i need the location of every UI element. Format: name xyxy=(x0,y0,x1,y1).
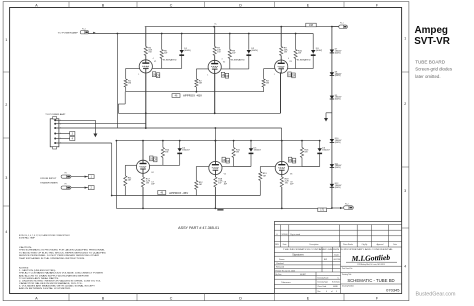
svg-text:6550A: 6550A xyxy=(279,167,285,170)
wire upper B+ bus xyxy=(145,26,339,28)
svg-text:Screen-grid diodes: Screen-grid diodes xyxy=(415,67,453,72)
wire upper bus stub to P2 xyxy=(332,26,339,28)
svg-text:Approval: Approval xyxy=(377,243,384,246)
wire pin3 drop to rail xyxy=(215,127,282,141)
svg-text:P2-1: P2-1 xyxy=(340,23,344,25)
wire grid V1 xyxy=(126,68,140,91)
svg-text:1W: 1W xyxy=(164,53,167,55)
label TO POWER AMP connector xyxy=(45,113,66,116)
net box dark on cathode bus xyxy=(217,209,223,211)
svg-text:D: D xyxy=(239,296,242,300)
wire screen res feed V6 xyxy=(288,141,302,167)
svg-text:ASSY PART # 47-365-01: ASSY PART # 47-365-01 xyxy=(178,226,219,230)
diode D6 1N4007 xyxy=(317,148,322,153)
watermark BustedGear.com xyxy=(416,291,456,297)
pin boxes V6 xyxy=(288,157,296,163)
resistor R8 screen xyxy=(228,50,231,59)
tolerance box xyxy=(281,281,291,284)
svg-text:4: 4 xyxy=(404,265,406,269)
svg-text:3. VOLTAGES ARE MEASURED WITH: 3. VOLTAGES ARE MEASURED WITH 120VAC SIG… xyxy=(19,284,96,287)
svg-text:BW: BW xyxy=(324,259,327,261)
net box 46 top xyxy=(172,94,180,98)
resistor R10 screen xyxy=(294,50,297,59)
svg-text:P1-4: P1-4 xyxy=(82,28,86,30)
svg-text:1W: 1W xyxy=(285,183,288,185)
label eliminator note V1 xyxy=(162,58,177,61)
svg-text:AND IN BETWEEN DIGITAL VOLT: AND IN BETWEEN DIGITAL VOLTMETER. xyxy=(19,287,72,290)
svg-text:168: 168 xyxy=(309,24,314,27)
wire screen feed V1 xyxy=(161,34,163,69)
wire diode feed D5 xyxy=(234,141,251,167)
svg-text:1. CAUTION (UNLESS NOTED):: 1. CAUTION (UNLESS NOTED): xyxy=(19,269,57,272)
svg-text:APPROX -45V: APPROX -45V xyxy=(169,192,189,195)
svg-text:Drawn: Drawn xyxy=(279,258,284,261)
resistor R11 grid 1M xyxy=(124,176,127,186)
margin title SVT-VR xyxy=(414,36,450,47)
svg-text:3: 3 xyxy=(404,189,406,193)
label R16 1M xyxy=(304,150,309,154)
wire input a arrow xyxy=(71,176,88,178)
zone row numbers xyxy=(5,37,406,269)
svg-text:44-365*: 44-365* xyxy=(300,274,306,276)
diode D2 screen 1N4007 xyxy=(246,50,251,55)
svg-text:Date: Date xyxy=(283,243,287,246)
ground arrow diode column xyxy=(324,118,328,122)
junction grid bus V2 xyxy=(196,91,198,93)
junction diode node V6 xyxy=(301,140,321,142)
junction cathode bus V5 xyxy=(215,173,226,209)
svg-text:TO POWER AMP: TO POWER AMP xyxy=(45,113,66,116)
label R5 10K 1W xyxy=(148,48,152,54)
svg-text:1: 1 xyxy=(138,74,139,76)
svg-text:9/13/06: 9/13/06 xyxy=(282,234,288,236)
svg-text:(600V): (600V) xyxy=(335,187,341,189)
wire grid bus jog down xyxy=(118,92,125,114)
svg-text:1: 1 xyxy=(404,37,406,41)
label R14 1M xyxy=(165,150,170,154)
doc control strip xyxy=(283,248,393,251)
scale rows xyxy=(318,276,341,292)
wire cathode V5 xyxy=(214,174,216,208)
svg-text:2. UNLESS NOTED: RESISTOR VAL: 2. UNLESS NOTED: RESISTOR VALUES IN OHMS… xyxy=(19,279,102,282)
net box input b xyxy=(88,186,94,190)
svg-text:SVT-VR: SVT-VR xyxy=(414,36,450,47)
svg-text:Chg By: Chg By xyxy=(362,244,368,246)
svg-text:CR: CR xyxy=(225,75,229,78)
svg-text:6550A: 6550A xyxy=(279,66,285,69)
wire cathode V6 xyxy=(281,174,283,208)
wire corner drop to D3 xyxy=(295,33,314,69)
wire diode feed D6 xyxy=(302,141,320,167)
svg-text:1M: 1M xyxy=(263,175,266,177)
label APPROX -45V top xyxy=(183,95,203,98)
junction rail riser xyxy=(116,140,118,142)
pin boxes V1 xyxy=(152,72,160,78)
svg-text:1W: 1W xyxy=(298,53,301,55)
margin title Ampeg xyxy=(415,25,448,36)
label R1 1M xyxy=(128,81,132,85)
drawing number text xyxy=(386,288,400,293)
wire input b arrow xyxy=(71,187,88,189)
svg-text:Description: Description xyxy=(310,243,319,246)
connector P3 right xyxy=(344,203,354,209)
svg-text:Class Code: Class Code xyxy=(318,286,327,288)
svg-text:1W: 1W xyxy=(284,52,287,54)
label D4 xyxy=(182,148,190,152)
svg-text:Date: Date xyxy=(334,253,339,256)
label R19 2.2K 1W xyxy=(285,179,295,186)
junction diode column cathode bus xyxy=(331,207,333,209)
tube V2 6550 xyxy=(208,60,221,73)
notes paragraph xyxy=(19,268,104,290)
wire pin4 to net box xyxy=(55,133,69,135)
signatures header xyxy=(292,253,339,256)
svg-text:1M: 1M xyxy=(128,83,131,85)
signatures grid xyxy=(274,241,340,293)
tiny label above upper bus xyxy=(215,23,217,25)
resistor R13 grid 1M xyxy=(259,172,262,181)
junction cathode bus V6 xyxy=(281,173,292,209)
label D10 xyxy=(335,138,342,144)
drawing title row xyxy=(341,273,402,276)
wire grid res to bus V5 xyxy=(195,189,197,195)
revision table columns xyxy=(280,225,388,247)
svg-text:V1: V1 xyxy=(154,61,156,63)
svg-text:SERVICE PERSONNEL. DO NOT PER: SERVICE PERSONNEL. DO NOT PERFORM ANY SE… xyxy=(19,254,100,257)
svg-text:1W: 1W xyxy=(148,52,151,54)
note top line xyxy=(19,234,71,240)
svg-text:CR: CR xyxy=(226,160,230,163)
diode D10 1N4007 600V xyxy=(330,139,334,142)
svg-text:Drawing Number: Drawing Number xyxy=(342,285,354,287)
wire pin6 down feed xyxy=(55,143,111,196)
margin note TUBE BOARD xyxy=(415,60,446,65)
pin boxes V2 xyxy=(221,72,229,78)
wire plate feed V4 xyxy=(142,141,144,161)
svg-text:2: 2 xyxy=(404,102,406,106)
pin number V3 xyxy=(274,58,292,76)
svg-text:SCHEMATIC - TUBE BD: SCHEMATIC - TUBE BD xyxy=(347,278,394,283)
junction upper bus / V3 plate xyxy=(280,26,282,28)
svg-text:M.I.Gottlieb: M.I.Gottlieb xyxy=(351,253,391,263)
label R9 10K 1W xyxy=(284,48,288,54)
wire diode feed D1 xyxy=(181,34,183,69)
tube V6 6550 xyxy=(275,161,288,174)
svg-text:D: D xyxy=(239,3,242,7)
sheet inner border xyxy=(10,8,402,294)
svg-text:44365: 44365 xyxy=(333,286,338,288)
label D5 xyxy=(254,148,262,152)
svg-text:Prime Realm: Prime Realm xyxy=(343,243,353,246)
svg-text:1W: 1W xyxy=(217,52,220,54)
wire cathode V1 xyxy=(145,73,147,129)
junction upper bus / diode column xyxy=(331,26,333,28)
svg-text:2: 2 xyxy=(60,123,61,125)
svg-text:1M: 1M xyxy=(128,180,131,182)
junction cathode bus V4 xyxy=(142,172,153,209)
diode D11 1N4007 600V xyxy=(330,164,334,167)
signatures rows xyxy=(276,258,340,269)
zone column ticks xyxy=(69,2,344,301)
margin note screen-grid xyxy=(415,67,453,72)
svg-text:My Part:: My Part: xyxy=(275,273,282,276)
tube V5 6550 xyxy=(209,161,222,174)
svg-text:Ampeg: Ampeg xyxy=(415,25,448,36)
wire screen feed V2 xyxy=(229,34,231,69)
wire plate feed V1 xyxy=(145,27,147,60)
resistor R19 cathode 2.2K xyxy=(280,177,283,187)
svg-text:CAUTION:: CAUTION: xyxy=(19,246,33,249)
svg-text:Schematic: Schematic xyxy=(332,281,340,284)
diode D8 1N4007 600V xyxy=(330,72,334,75)
svg-text:(600V): (600V) xyxy=(335,53,341,55)
svg-text:171: 171 xyxy=(320,209,325,212)
svg-text:1: 1 xyxy=(274,74,275,76)
label D11 xyxy=(335,163,342,169)
svg-text:(600V): (600V) xyxy=(335,142,341,144)
svg-text:4: 4 xyxy=(288,58,289,60)
svg-text:*ELIMINATED: *ELIMINATED xyxy=(230,58,245,61)
printed row xyxy=(275,269,306,276)
svg-text:06/17/06: 06/17/06 xyxy=(334,259,341,261)
junction rail V4 xyxy=(142,140,144,142)
svg-text:TRANSFORMER: TRANSFORMER xyxy=(40,181,58,184)
connector P2 at upper bus right xyxy=(339,23,348,29)
wire cathode bus bottom xyxy=(116,207,332,209)
tube V1 6550 xyxy=(139,60,152,73)
tube V3 6550 xyxy=(275,60,288,73)
pin number V2 xyxy=(207,58,225,76)
wire screen res feed V5 xyxy=(222,141,234,167)
svg-text:Released: Released xyxy=(276,267,284,269)
label R8 xyxy=(232,51,236,55)
svg-text:4: 4 xyxy=(153,58,154,60)
pin boxes V3 xyxy=(288,72,296,78)
svg-text:3: 3 xyxy=(336,291,337,293)
svg-text:1N4007: 1N4007 xyxy=(182,150,190,152)
svg-text:Checked: Checked xyxy=(276,263,283,265)
junction diode node V4 xyxy=(162,140,181,142)
pin boxes V5 xyxy=(222,157,230,163)
svg-text:(600V): (600V) xyxy=(184,50,191,52)
svg-text:3: 3 xyxy=(5,176,7,180)
wire grid V5 xyxy=(196,167,209,181)
wire screen res feed V4 xyxy=(149,141,163,166)
wire diode column xyxy=(331,27,333,208)
zone row ticks xyxy=(3,72,409,228)
caution paragraph xyxy=(19,246,107,260)
resistor R16 1M xyxy=(300,148,303,158)
svg-text:V3: V3 xyxy=(289,61,291,63)
junction rail V6 xyxy=(281,140,283,142)
wire B+ rail bottom row xyxy=(116,140,319,142)
wire feedback drop from top bus xyxy=(116,34,118,129)
wire cathode V4 xyxy=(142,173,144,208)
wire cathode bus to P3 xyxy=(332,207,344,209)
connector P5 input b xyxy=(61,184,71,190)
resistor R6 screen xyxy=(160,50,163,59)
resistor R9 plate 10K xyxy=(280,47,283,56)
junction lower bus D2 xyxy=(229,33,250,35)
label D3 600V xyxy=(316,48,323,52)
label D2 600V xyxy=(251,48,258,52)
resistor R14 1M xyxy=(161,148,164,158)
diode D5 1N4007 xyxy=(249,148,254,153)
wire pin5 to net box xyxy=(55,138,69,140)
svg-text:Printed: Thu Jun 15, 2006: Printed: Thu Jun 15, 2006 xyxy=(275,269,294,272)
label FROM INPUT TRANSFORMER xyxy=(40,178,58,184)
svg-text:*ELIMINATED: *ELIMINATED xyxy=(162,58,177,61)
svg-text:BustedGear.com: BustedGear.com xyxy=(416,291,456,297)
junction V2 cathode xyxy=(214,112,216,114)
svg-text:CR: CR xyxy=(292,75,296,78)
svg-text:1W: 1W xyxy=(232,53,235,55)
svg-text:1N4007: 1N4007 xyxy=(254,150,262,152)
label D6 xyxy=(322,148,330,152)
svg-text:1W: 1W xyxy=(146,183,149,185)
label D9 xyxy=(335,95,342,101)
connector P1 TO POWER AMP xyxy=(58,28,96,34)
svg-text:P8: P8 xyxy=(65,173,67,175)
svg-text:CR: CR xyxy=(156,74,160,77)
junction pin6/grid bus2 xyxy=(111,195,113,197)
net box pin4 xyxy=(70,132,75,136)
resistor R1 grid 1M xyxy=(124,79,127,87)
wire screen node V1 xyxy=(152,67,182,69)
wire plate feed V5 xyxy=(214,141,216,162)
svg-text:1M: 1M xyxy=(199,184,202,186)
svg-text:Tolerance: Tolerance xyxy=(281,281,291,284)
label R10 xyxy=(298,51,303,55)
svg-text:Chg to vined: Chg to vined xyxy=(290,233,300,236)
wire ground branch diode column xyxy=(326,113,332,118)
label R11 1M xyxy=(128,177,133,181)
label D8 xyxy=(335,71,342,77)
drawing number row xyxy=(341,284,402,287)
wire screen feed V3 xyxy=(295,34,297,69)
wire diode feed D4 xyxy=(163,141,180,166)
label D12 xyxy=(335,183,342,189)
resistor R5 plate 10K xyxy=(144,47,147,56)
label R3 1M xyxy=(266,81,270,85)
svg-text:THE ACT CONTAINS HAZARDOUS V: THE ACT CONTAINS HAZARDOUS VOLTAGE. DISC… xyxy=(19,272,104,275)
svg-text:4: 4 xyxy=(5,230,7,234)
svg-text:1M: 1M xyxy=(165,152,168,154)
svg-text:(600V): (600V) xyxy=(335,167,341,169)
junction lower bus D1 xyxy=(161,33,183,35)
wire plate feed V2 xyxy=(214,27,216,61)
junction upper bus / V2 plate xyxy=(213,26,215,28)
label R2 1M xyxy=(199,81,203,85)
svg-text:4: 4 xyxy=(222,58,223,60)
wire plate feed V3 xyxy=(280,27,282,60)
svg-text:4: 4 xyxy=(326,291,327,293)
resistor R7 plate 10K xyxy=(213,47,216,56)
resistor R15 1M xyxy=(232,148,235,158)
svg-text:2: 2 xyxy=(5,103,7,107)
logo LOUD script xyxy=(346,253,397,263)
revision row text xyxy=(276,233,300,236)
svg-text:THAT EXPLAINED IN THE OPERATIN: THAT EXPLAINED IN THE OPERATING INSTRUCT… xyxy=(19,257,86,260)
svg-text:V6: V6 xyxy=(290,173,292,175)
wire plate feed V6 xyxy=(281,141,283,162)
resistor R3 grid 1M xyxy=(262,79,265,87)
svg-text:V5: V5 xyxy=(224,173,226,175)
wire grid V2 xyxy=(196,69,208,92)
wire diode feed D2 xyxy=(248,34,250,69)
diode D3 screen 1N4007 xyxy=(311,50,316,55)
wire lower supply bus xyxy=(88,33,313,35)
title block outline and revision rows xyxy=(274,222,401,294)
svg-text:Rev: Rev xyxy=(318,291,321,293)
svg-text:(600V): (600V) xyxy=(335,75,341,77)
zone column letters xyxy=(35,3,379,300)
resistor R12 grid 1M xyxy=(195,181,198,190)
wire cathode V3 xyxy=(280,72,282,113)
svg-text:(600V): (600V) xyxy=(251,50,258,52)
svg-text:V2: V2 xyxy=(223,62,225,64)
label ASSY PART xyxy=(178,226,219,230)
label eliminator note V2 xyxy=(230,58,245,61)
net box 46 bottom xyxy=(158,191,166,195)
label D1 600V xyxy=(184,48,191,52)
svg-text:(600V): (600V) xyxy=(316,50,323,52)
net box on cathode bus right xyxy=(318,208,327,212)
junction lower bus / feedback drop xyxy=(117,33,119,35)
wire grid V4 xyxy=(125,165,136,176)
svg-text:070345: 070345 xyxy=(386,288,400,293)
connector P4 input a xyxy=(61,173,71,179)
svg-text:Drawing Type: Drawing Type xyxy=(318,281,328,284)
svg-text:1W: 1W xyxy=(218,183,221,185)
label R18 2.2K 1W xyxy=(218,179,228,186)
svg-text:B+: B+ xyxy=(215,23,217,25)
wire grid V3 xyxy=(264,69,275,92)
wire grid bias bus top xyxy=(126,91,264,93)
svg-text:later omitted.: later omitted. xyxy=(415,74,440,79)
wire left rail riser xyxy=(115,141,117,209)
svg-text:C: C xyxy=(170,3,173,7)
svg-text:V4: V4 xyxy=(151,172,153,174)
svg-text:1N4007: 1N4007 xyxy=(322,150,330,152)
label R12 1M xyxy=(199,182,204,186)
svg-text:1: 1 xyxy=(5,38,7,42)
svg-text:TO AVOID RISK OF ELECTRIC SHOC: TO AVOID RISK OF ELECTRIC SHOCK. REFER S… xyxy=(19,251,107,254)
pin boxes V4 xyxy=(150,156,158,162)
svg-text:6550A: 6550A xyxy=(213,167,219,170)
resistor R17 cathode 2.2K xyxy=(141,177,144,187)
svg-text:6550A: 6550A xyxy=(141,166,147,169)
connector J1 TO POWER AMP xyxy=(50,117,59,149)
svg-text:6550A: 6550A xyxy=(143,66,149,69)
label R17 2.2K 1W xyxy=(146,179,156,186)
svg-text:CAPACITOR VALUES IN MICROFARAD: CAPACITOR VALUES IN MICROFARADS, 20% TOL… xyxy=(19,282,84,285)
label R15 1M xyxy=(236,150,241,154)
svg-text:Date: Date xyxy=(393,243,397,246)
wire V1 cathode tail to connector xyxy=(59,123,146,125)
ground arrow pin1 xyxy=(93,134,97,138)
margin note later omitted xyxy=(415,74,440,79)
svg-text:(600V): (600V) xyxy=(335,99,341,101)
svg-text:AND ALLOW TO DRAIN SUPPLY A D: AND ALLOW TO DRAIN SUPPLY A DISCHARGED B… xyxy=(19,274,90,277)
label R7 10K 1W xyxy=(217,48,221,54)
wire cathode bus top row xyxy=(118,112,280,114)
svg-text:*ELIMINATED: *ELIMINATED xyxy=(296,58,311,61)
svg-text:APPROX -45V: APPROX -45V xyxy=(183,95,203,98)
junction rail pin3 drop xyxy=(215,140,217,142)
junction diode node V5 xyxy=(233,140,252,142)
connector pin numbers xyxy=(60,120,61,145)
